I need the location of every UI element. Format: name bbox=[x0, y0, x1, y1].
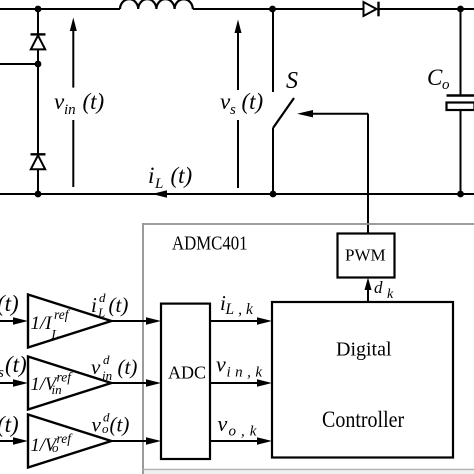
svg-text:ADC: ADC bbox=[168, 363, 206, 383]
capacitor Co bbox=[447, 9, 474, 194]
wire gate drive bbox=[297, 110, 368, 234]
arrow vink to controller bbox=[210, 379, 272, 386]
amplifier A3 bbox=[28, 415, 111, 468]
label vink bbox=[216, 352, 267, 381]
Digital Controller block bbox=[272, 302, 453, 458]
svg-text:PWM: PWM bbox=[345, 246, 386, 265]
wire between diodes bbox=[37, 49, 39, 154]
arrow d_k bbox=[365, 278, 372, 303]
arrow vod to ADC bbox=[111, 437, 161, 444]
svg-text:d: d bbox=[103, 352, 110, 367]
arrow v_in bbox=[70, 18, 77, 188]
svg-text:(t): (t) bbox=[109, 293, 129, 317]
label ADMC401 bbox=[172, 232, 248, 255]
node bottom right bbox=[457, 191, 464, 198]
svg-text:in: in bbox=[64, 102, 76, 118]
arrow iLd to ADC bbox=[111, 317, 161, 324]
svg-text:ADMC401: ADMC401 bbox=[172, 232, 248, 255]
wire top rail middle bbox=[193, 8, 364, 10]
svg-text:1/I: 1/I bbox=[31, 313, 54, 334]
svg-text:o: o bbox=[52, 440, 59, 455]
svg-text:S: S bbox=[286, 68, 298, 94]
svg-text:in,k: in,k bbox=[227, 365, 267, 381]
svg-text:s: s bbox=[0, 365, 4, 381]
svg-text:v: v bbox=[216, 352, 226, 377]
svg-text:(t): (t) bbox=[118, 355, 138, 379]
arrow vok to controller bbox=[210, 437, 272, 444]
switch S bbox=[273, 9, 294, 194]
diode D1 bbox=[31, 34, 46, 49]
svg-text:v: v bbox=[92, 413, 102, 437]
svg-text:L: L bbox=[97, 305, 105, 320]
PWM block bbox=[338, 234, 395, 278]
label vind(t) bbox=[91, 352, 137, 383]
node top left bbox=[35, 6, 42, 13]
wire bottom rail bbox=[0, 193, 474, 195]
svg-text:Controller: Controller bbox=[322, 407, 405, 433]
svg-text:v: v bbox=[91, 355, 101, 379]
label gain 1/IL bbox=[31, 307, 71, 342]
svg-text:L: L bbox=[154, 176, 163, 192]
ADMC401 box bbox=[143, 223, 474, 474]
svg-text:L,k: L,k bbox=[225, 301, 257, 318]
wire ac input bbox=[0, 63, 38, 65]
svg-text:d: d bbox=[99, 290, 106, 305]
label vod(t) bbox=[92, 410, 130, 437]
svg-text:(t): (t) bbox=[5, 352, 27, 377]
node bottom switch bbox=[270, 191, 277, 198]
svg-text:ref: ref bbox=[57, 431, 74, 446]
arrow iLk to controller bbox=[210, 317, 272, 324]
label v_in(t) bbox=[54, 89, 104, 118]
svg-text:o,k: o,k bbox=[229, 424, 262, 440]
arrow input vo bbox=[0, 437, 28, 444]
svg-text:Digital: Digital bbox=[336, 339, 392, 361]
label i_L(t) bbox=[148, 163, 192, 192]
svg-text:in: in bbox=[102, 368, 112, 383]
svg-text:i: i bbox=[91, 293, 97, 317]
arrow input vin bbox=[0, 379, 28, 386]
arrow input iL bbox=[0, 317, 28, 324]
node top right bbox=[457, 6, 464, 13]
svg-text:C: C bbox=[427, 65, 443, 90]
wire top rail right bbox=[379, 8, 474, 10]
svg-text:ref: ref bbox=[54, 307, 71, 322]
svg-text:(t): (t) bbox=[0, 412, 19, 437]
inductor L bbox=[120, 0, 193, 9]
label vok bbox=[218, 411, 262, 440]
svg-text:k: k bbox=[387, 287, 394, 302]
ADC block bbox=[161, 304, 210, 459]
svg-text:(t): (t) bbox=[242, 89, 264, 114]
wire left branch lower bbox=[37, 169, 39, 194]
label d_k bbox=[374, 278, 394, 302]
wire left branch upper bbox=[37, 9, 39, 34]
arrowhead i_L bbox=[152, 190, 167, 197]
svg-text:(t): (t) bbox=[0, 291, 19, 316]
svg-text:i: i bbox=[148, 163, 154, 188]
label iLk bbox=[220, 291, 257, 318]
label gain 1/Vo bbox=[31, 431, 74, 456]
arrow v_s bbox=[235, 20, 242, 189]
node bottom left bbox=[35, 191, 42, 198]
svg-text:L: L bbox=[51, 327, 59, 342]
label iLd(t) bbox=[91, 290, 128, 320]
label input vin (t) bbox=[0, 352, 27, 381]
amplifier A1 bbox=[28, 295, 111, 348]
diode D3 bbox=[364, 2, 379, 17]
diode D2 bbox=[31, 154, 46, 169]
node top switch bbox=[269, 6, 276, 13]
svg-text:o: o bbox=[102, 421, 109, 436]
label Co bbox=[427, 65, 450, 93]
svg-text:d: d bbox=[374, 278, 383, 297]
svg-text:o: o bbox=[442, 77, 450, 93]
label gain 1/Vin bbox=[31, 370, 74, 398]
arrow vind to ADC bbox=[111, 379, 161, 386]
svg-text:(t): (t) bbox=[110, 413, 130, 437]
wire top rail left bbox=[0, 8, 120, 10]
svg-text:(t): (t) bbox=[83, 89, 105, 114]
svg-text:(t): (t) bbox=[171, 163, 193, 188]
svg-text:v: v bbox=[218, 411, 228, 436]
label v_s(t) bbox=[220, 89, 263, 118]
node ac input bbox=[35, 61, 42, 68]
amplifier A2 bbox=[28, 357, 111, 410]
svg-text:s: s bbox=[230, 102, 236, 118]
caption band bbox=[144, 470, 474, 474]
svg-text:in: in bbox=[52, 382, 62, 397]
